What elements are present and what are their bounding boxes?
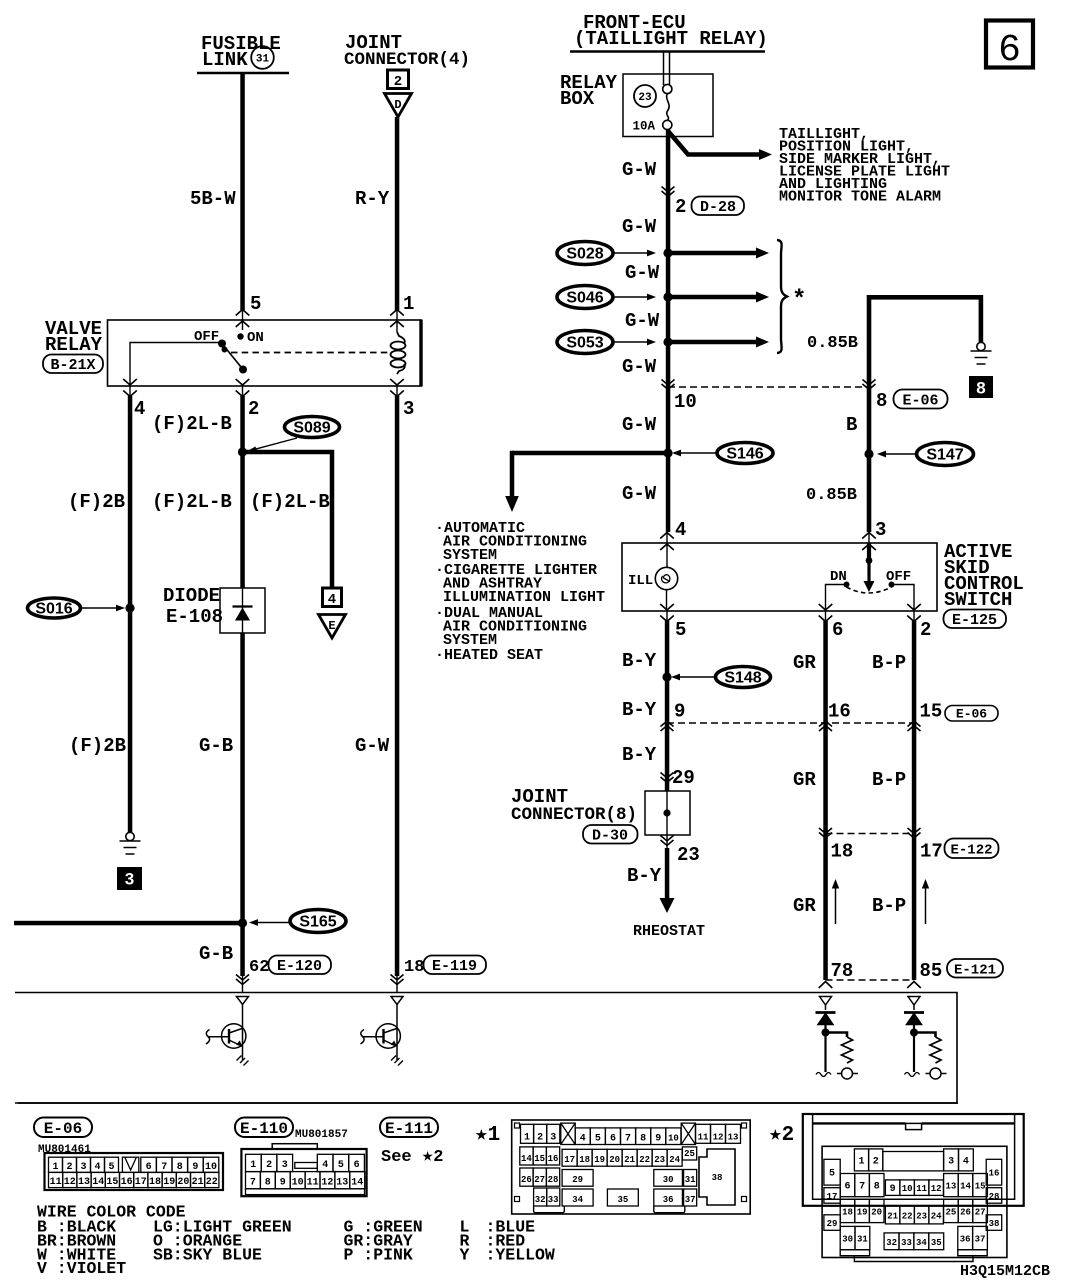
svg-text:17: 17 <box>920 841 943 863</box>
svg-text:12: 12 <box>64 1177 76 1188</box>
svg-text:E-108: E-108 <box>166 606 223 628</box>
svg-text:8: 8 <box>976 379 985 398</box>
8 (E-06) <box>876 390 948 413</box>
svg-text:ILL: ILL <box>628 573 653 589</box>
svg-text:26: 26 <box>521 1175 532 1185</box>
svg-text:S046: S046 <box>566 290 603 307</box>
svg-text:35: 35 <box>617 1195 628 1205</box>
S046 row <box>557 286 656 309</box>
svg-text:22: 22 <box>639 1155 650 1165</box>
svg-text:(TAILLIGHT RELAY): (TAILLIGHT RELAY) <box>574 28 768 50</box>
svg-text:9: 9 <box>674 701 685 723</box>
svg-text:19: 19 <box>163 1177 175 1188</box>
svg-text:D-28: D-28 <box>700 199 736 216</box>
wire pin3 down G-W <box>395 396 400 976</box>
svg-text:G-B: G-B <box>199 735 233 757</box>
svg-text:3: 3 <box>282 1160 288 1171</box>
diode E-108 box <box>220 588 265 633</box>
svg-text:G-W: G-W <box>355 735 390 757</box>
svg-text:3: 3 <box>80 1162 86 1173</box>
svg-text:CONNECTOR(4): CONNECTOR(4) <box>344 50 470 70</box>
dashed E-06 row2 <box>667 722 914 724</box>
svg-text:7: 7 <box>250 1177 256 1188</box>
svg-text:R-Y: R-Y <box>355 188 390 210</box>
svg-text:1: 1 <box>403 293 414 315</box>
pin 3 <box>390 379 414 420</box>
triangle E <box>319 615 346 639</box>
svg-text:6: 6 <box>610 1134 616 1145</box>
svg-text:8: 8 <box>640 1134 646 1145</box>
svg-text:10: 10 <box>292 1177 304 1188</box>
svg-text:4: 4 <box>94 1162 100 1173</box>
svg-text:4: 4 <box>675 519 686 541</box>
wire color code <box>37 1203 555 1279</box>
svg-text:23: 23 <box>916 1211 927 1221</box>
switch box <box>622 543 937 611</box>
svg-text:SB:SKY BLUE: SB:SKY BLUE <box>153 1245 262 1264</box>
svg-text:19: 19 <box>857 1208 868 1218</box>
svg-text:GR: GR <box>793 769 816 791</box>
svg-text:3: 3 <box>125 870 134 889</box>
svg-text:22: 22 <box>206 1177 218 1188</box>
relay left thin wire to pin 4 <box>130 343 222 387</box>
svg-text:35: 35 <box>931 1238 942 1248</box>
svg-text:18: 18 <box>149 1177 161 1188</box>
svg-text:14: 14 <box>521 1154 532 1164</box>
svg-text:14: 14 <box>92 1177 104 1188</box>
svg-text:16: 16 <box>828 701 851 723</box>
svg-text:7: 7 <box>625 1134 631 1145</box>
svg-text:1: 1 <box>52 1162 58 1173</box>
svg-text:29: 29 <box>672 767 695 789</box>
svg-text:1: 1 <box>524 1132 530 1143</box>
svg-text:9: 9 <box>192 1162 198 1173</box>
svg-text:G-W: G-W <box>625 310 660 332</box>
taillight text block <box>779 126 950 206</box>
svg-text:27: 27 <box>975 1208 986 1218</box>
svg-text:10A: 10A <box>633 120 656 134</box>
svg-text:3: 3 <box>875 519 886 541</box>
svg-text:S147: S147 <box>926 447 963 464</box>
junction S089 <box>238 447 247 456</box>
svg-text:B-21X: B-21X <box>50 357 95 374</box>
svg-text:6: 6 <box>832 619 843 641</box>
23 exit <box>661 835 700 866</box>
svg-text:13: 13 <box>728 1132 739 1142</box>
dashed E-06 line <box>668 386 869 388</box>
relay switch OFF/ON <box>194 329 264 374</box>
svg-text:17: 17 <box>827 1192 838 1202</box>
svg-text:31: 31 <box>685 1175 696 1185</box>
svg-text:25: 25 <box>684 1149 695 1159</box>
D-28 crossing <box>662 187 675 197</box>
switch mechanism <box>867 543 871 560</box>
svg-text:24: 24 <box>931 1211 942 1221</box>
brace <box>777 240 787 353</box>
svg-text:E-06: E-06 <box>44 1120 82 1138</box>
svg-text:·HEATED SEAT: ·HEATED SEAT <box>435 647 543 664</box>
svg-text:29: 29 <box>827 1219 838 1229</box>
svg-text:38: 38 <box>989 1219 1000 1229</box>
connector STAR2 drawing <box>803 1114 1024 1262</box>
svg-text:12: 12 <box>931 1184 942 1194</box>
svg-text:G-W: G-W <box>622 414 657 436</box>
pin 5 <box>236 293 262 330</box>
svg-text:8: 8 <box>177 1162 183 1173</box>
svg-text:G-B: G-B <box>199 943 233 965</box>
svg-text:MU801857: MU801857 <box>295 1129 348 1141</box>
svg-text::YELLOW: :YELLOW <box>486 1245 555 1264</box>
page number 6 box <box>986 21 1033 73</box>
svg-text:GR: GR <box>793 895 816 917</box>
svg-text:33: 33 <box>548 1195 559 1205</box>
S028 row <box>557 242 656 265</box>
svg-text:11: 11 <box>307 1177 319 1188</box>
svg-text:15: 15 <box>975 1182 986 1192</box>
svg-text:V :VIOLET: V :VIOLET <box>37 1259 126 1278</box>
connector STAR1 drawing <box>512 1120 751 1214</box>
svg-text:2: 2 <box>537 1132 543 1143</box>
svg-text:16: 16 <box>989 1169 1000 1179</box>
svg-text:LINK: LINK <box>202 49 248 71</box>
svg-text:D-30: D-30 <box>592 828 628 845</box>
svg-text:9: 9 <box>655 1134 661 1145</box>
svg-text:10: 10 <box>668 1134 679 1144</box>
svg-text:23: 23 <box>654 1155 665 1165</box>
svg-text:3: 3 <box>948 1156 954 1167</box>
pin 4 chevrons <box>660 533 674 569</box>
svg-text:13: 13 <box>336 1177 348 1188</box>
S146 junction row <box>512 451 668 456</box>
svg-text:12: 12 <box>713 1132 724 1142</box>
svg-text:62: 62 <box>249 958 269 977</box>
svg-text:E-06: E-06 <box>902 393 938 410</box>
switch label <box>944 541 1024 611</box>
svg-text:6: 6 <box>844 1182 850 1193</box>
svg-text:5: 5 <box>108 1162 114 1173</box>
lamp (transistor symbol) left 2 <box>361 997 404 1066</box>
svg-text:10: 10 <box>205 1162 217 1173</box>
svg-text:18: 18 <box>831 841 854 863</box>
svg-text:S028: S028 <box>566 246 603 263</box>
S148 <box>662 672 671 681</box>
svg-text:(F)2L-B: (F)2L-B <box>152 413 232 435</box>
svg-text:E-119: E-119 <box>432 958 477 975</box>
black box 8 <box>969 376 993 398</box>
svg-text:31: 31 <box>256 54 270 66</box>
wire R-Y <box>395 117 400 310</box>
wire (F)2B left <box>128 396 133 832</box>
svg-text:4: 4 <box>322 1160 328 1171</box>
svg-text:G-W: G-W <box>622 216 657 238</box>
svg-text:3: 3 <box>550 1132 556 1143</box>
svg-text:32: 32 <box>886 1238 897 1248</box>
wire pin2 down <box>240 396 245 588</box>
svg-text:85: 85 <box>920 960 943 982</box>
svg-text:6: 6 <box>998 29 1021 72</box>
E-111 header bubble <box>380 1118 438 1139</box>
svg-text:E-111: E-111 <box>385 1120 433 1138</box>
svg-text:20: 20 <box>609 1155 620 1165</box>
svg-text:2: 2 <box>248 398 259 420</box>
svg-text:20: 20 <box>871 1208 882 1218</box>
svg-text:S089: S089 <box>293 420 330 437</box>
svg-text:10: 10 <box>674 391 697 413</box>
svg-text:S165: S165 <box>299 914 336 931</box>
svg-text:9: 9 <box>280 1177 286 1188</box>
svg-text:E: E <box>328 619 335 633</box>
svg-text:13: 13 <box>945 1182 956 1192</box>
svg-text:38: 38 <box>712 1173 723 1183</box>
svg-text:4: 4 <box>328 592 336 608</box>
svg-text:18: 18 <box>579 1155 590 1165</box>
svg-text:11: 11 <box>698 1132 709 1142</box>
relay box <box>623 74 713 137</box>
svg-text:RELAY: RELAY <box>45 334 103 356</box>
svg-text:(F)2B: (F)2B <box>68 491 125 513</box>
svg-text:5: 5 <box>338 1160 344 1171</box>
svg-text:See ★2: See ★2 <box>381 1145 443 1167</box>
main wire into switch <box>666 542 671 544</box>
svg-text:11: 11 <box>50 1177 62 1188</box>
svg-text:2: 2 <box>873 1156 879 1167</box>
svg-text:15: 15 <box>106 1177 118 1188</box>
chevrons into bottom box <box>236 975 249 993</box>
svg-text:6: 6 <box>146 1162 152 1173</box>
svg-text:4: 4 <box>580 1134 586 1145</box>
svg-text:★2: ★2 <box>769 1124 794 1147</box>
svg-text:E-121: E-121 <box>954 963 996 979</box>
pin 3 chevrons <box>862 533 876 554</box>
svg-text:P :PINK: P :PINK <box>344 1245 413 1264</box>
svg-text:4: 4 <box>963 1156 969 1167</box>
svg-text:8: 8 <box>874 1182 880 1193</box>
svg-text:21: 21 <box>624 1155 635 1165</box>
svg-text:28: 28 <box>548 1175 559 1185</box>
D-30 box <box>645 791 690 835</box>
bubble B-21X <box>43 355 103 375</box>
branch wire right and down to 4/E <box>243 452 333 588</box>
valve relay box <box>108 320 422 386</box>
svg-text:34: 34 <box>916 1238 927 1248</box>
lamp (transistor symbol) left 1 <box>206 997 249 1066</box>
svg-text:B-Y: B-Y <box>627 865 662 887</box>
circled 23 <box>634 85 656 107</box>
circled 31 <box>251 46 274 69</box>
svg-text:5: 5 <box>250 293 261 315</box>
pin 1 <box>390 293 414 332</box>
branch arrow to taillight text <box>668 131 760 155</box>
svg-text:ON: ON <box>247 330 264 346</box>
svg-text:36: 36 <box>663 1195 674 1205</box>
relay coil <box>391 332 406 374</box>
svg-text:26: 26 <box>960 1208 971 1218</box>
pin 4 <box>123 379 145 420</box>
svg-text:2: 2 <box>266 1160 272 1171</box>
svg-text:1: 1 <box>250 1160 256 1171</box>
svg-text:15: 15 <box>534 1154 545 1164</box>
svg-text:33: 33 <box>901 1238 912 1248</box>
svg-text:MU801461: MU801461 <box>38 1144 91 1156</box>
svg-text:16: 16 <box>548 1154 559 1164</box>
S089 <box>247 417 340 453</box>
svg-text:E-06: E-06 <box>956 707 987 722</box>
svg-text:2: 2 <box>675 196 686 218</box>
svg-text:H3Q15M12CB: H3Q15M12CB <box>960 1263 1050 1280</box>
svg-text:RHEOSTAT: RHEOSTAT <box>633 923 705 940</box>
bullet list <box>435 520 605 664</box>
svg-text:5: 5 <box>675 619 686 641</box>
svg-text:B-P: B-P <box>872 769 906 791</box>
svg-text:5: 5 <box>829 1169 835 1180</box>
wire below diode <box>240 633 245 976</box>
svg-text:1: 1 <box>858 1156 864 1167</box>
svg-text:21: 21 <box>887 1211 898 1221</box>
svg-text:G-W: G-W <box>622 356 657 378</box>
svg-text:7: 7 <box>859 1182 865 1193</box>
svg-text:S148: S148 <box>724 670 761 687</box>
svg-text:24: 24 <box>669 1155 680 1165</box>
svg-text:B-P: B-P <box>872 652 906 674</box>
svg-text:S146: S146 <box>726 446 763 463</box>
svg-text:★1: ★1 <box>475 1124 500 1147</box>
svg-text:25: 25 <box>945 1208 956 1218</box>
svg-text:34: 34 <box>572 1195 583 1205</box>
S053 row <box>557 331 656 354</box>
svg-text:E-120: E-120 <box>277 958 322 975</box>
svg-text:6: 6 <box>354 1160 360 1171</box>
svg-text:37: 37 <box>975 1235 986 1245</box>
connector E-110 drawing <box>241 1144 366 1197</box>
svg-text:S016: S016 <box>35 601 72 618</box>
svg-text:14: 14 <box>351 1177 363 1188</box>
18 (E-119) <box>404 956 486 978</box>
up arrows <box>836 886 926 924</box>
svg-text:36: 36 <box>960 1235 971 1245</box>
svg-text:CONNECTOR(8): CONNECTOR(8) <box>511 805 637 825</box>
svg-text:4: 4 <box>134 398 145 420</box>
svg-text:S053: S053 <box>566 335 603 352</box>
svg-text:G-W: G-W <box>625 262 660 284</box>
triangle D <box>385 94 412 118</box>
svg-text:Y: Y <box>460 1245 470 1264</box>
ground left <box>120 832 141 854</box>
bottom pins 5,6,2 <box>660 604 686 641</box>
svg-text:9: 9 <box>890 1184 896 1195</box>
connector E-06 drawing <box>45 1153 224 1190</box>
E-06 header bubble <box>34 1118 92 1139</box>
svg-text:D: D <box>394 98 401 112</box>
relay dashed link <box>231 352 392 354</box>
main G-W wire down from fuse <box>666 129 671 532</box>
svg-text:27: 27 <box>534 1175 545 1185</box>
svg-text:17: 17 <box>564 1155 575 1165</box>
svg-text:B-P: B-P <box>872 895 906 917</box>
svg-text:23: 23 <box>638 92 652 104</box>
svg-text:31: 31 <box>857 1235 868 1245</box>
svg-text:37: 37 <box>685 1195 696 1205</box>
black box 3 <box>117 867 142 890</box>
svg-text:8: 8 <box>876 390 887 412</box>
svg-text:G-W: G-W <box>622 483 657 505</box>
svg-text:28: 28 <box>989 1192 1000 1202</box>
right vertical wire 0.85B <box>867 295 872 532</box>
svg-text:5: 5 <box>595 1134 601 1145</box>
pin 2 <box>236 379 260 420</box>
svg-text:30: 30 <box>663 1175 674 1185</box>
svg-text:15: 15 <box>920 701 943 723</box>
svg-text:21: 21 <box>192 1177 204 1188</box>
svg-text:BOX: BOX <box>560 88 595 110</box>
svg-text:E-110: E-110 <box>240 1120 288 1138</box>
svg-text:B: B <box>846 414 857 436</box>
svg-text:2: 2 <box>66 1162 72 1173</box>
svg-text:3: 3 <box>403 398 414 420</box>
svg-text:*: * <box>792 287 806 314</box>
2 (D-28) <box>675 196 744 218</box>
svg-text:10: 10 <box>902 1184 913 1194</box>
svg-text:22: 22 <box>902 1211 913 1221</box>
E-110 header bubble <box>235 1118 293 1139</box>
fuse 10A <box>663 84 672 129</box>
svg-text:20: 20 <box>177 1177 189 1188</box>
LED circuit right 2 <box>904 997 947 1080</box>
svg-text:B-Y: B-Y <box>622 699 657 721</box>
LED circuit right 1 <box>816 997 859 1080</box>
right branch wire to ground <box>869 297 981 342</box>
svg-text:30: 30 <box>842 1235 853 1245</box>
svg-text:B-Y: B-Y <box>622 650 657 672</box>
svg-text:8: 8 <box>265 1177 271 1188</box>
svg-text:DIODE: DIODE <box>163 585 220 607</box>
svg-text:(F)2B: (F)2B <box>69 735 126 757</box>
svg-text:SWITCH: SWITCH <box>944 589 1012 611</box>
svg-text:2: 2 <box>920 619 931 641</box>
horizontal wire into S165 junction <box>14 921 243 926</box>
double line down <box>664 52 670 86</box>
svg-text:(F)2L-B: (F)2L-B <box>250 491 330 513</box>
svg-text:B-Y: B-Y <box>622 744 657 766</box>
62 (E-120) <box>249 956 331 978</box>
dashed E-122 row <box>826 833 915 835</box>
svg-text:E-125: E-125 <box>952 612 997 629</box>
svg-text:0.85B: 0.85B <box>806 486 857 505</box>
svg-text:13: 13 <box>78 1177 90 1188</box>
svg-text:18: 18 <box>842 1208 853 1218</box>
svg-text:16: 16 <box>121 1177 133 1188</box>
svg-text:0.85B: 0.85B <box>807 334 858 353</box>
svg-text:14: 14 <box>960 1182 971 1192</box>
svg-text:E-122: E-122 <box>950 843 992 859</box>
svg-text:5B-W: 5B-W <box>190 188 236 210</box>
svg-text:11: 11 <box>916 1184 927 1194</box>
svg-text:18: 18 <box>404 958 424 977</box>
svg-text:12: 12 <box>321 1177 333 1188</box>
svg-text:ILLUMINATION LIGHT: ILLUMINATION LIGHT <box>443 589 605 606</box>
svg-text:32: 32 <box>535 1195 546 1205</box>
svg-text:2: 2 <box>394 74 402 90</box>
wire 5B-W <box>240 73 245 310</box>
S165 <box>249 910 346 933</box>
bar <box>570 50 765 53</box>
svg-text:G-W: G-W <box>622 159 657 181</box>
svg-text:GR: GR <box>793 652 816 674</box>
svg-text:29: 29 <box>572 1175 583 1185</box>
S016 <box>28 598 126 618</box>
29 crossing chevrons <box>661 773 674 783</box>
box 4 <box>323 588 342 608</box>
svg-text:(F)2L-B: (F)2L-B <box>152 491 232 513</box>
